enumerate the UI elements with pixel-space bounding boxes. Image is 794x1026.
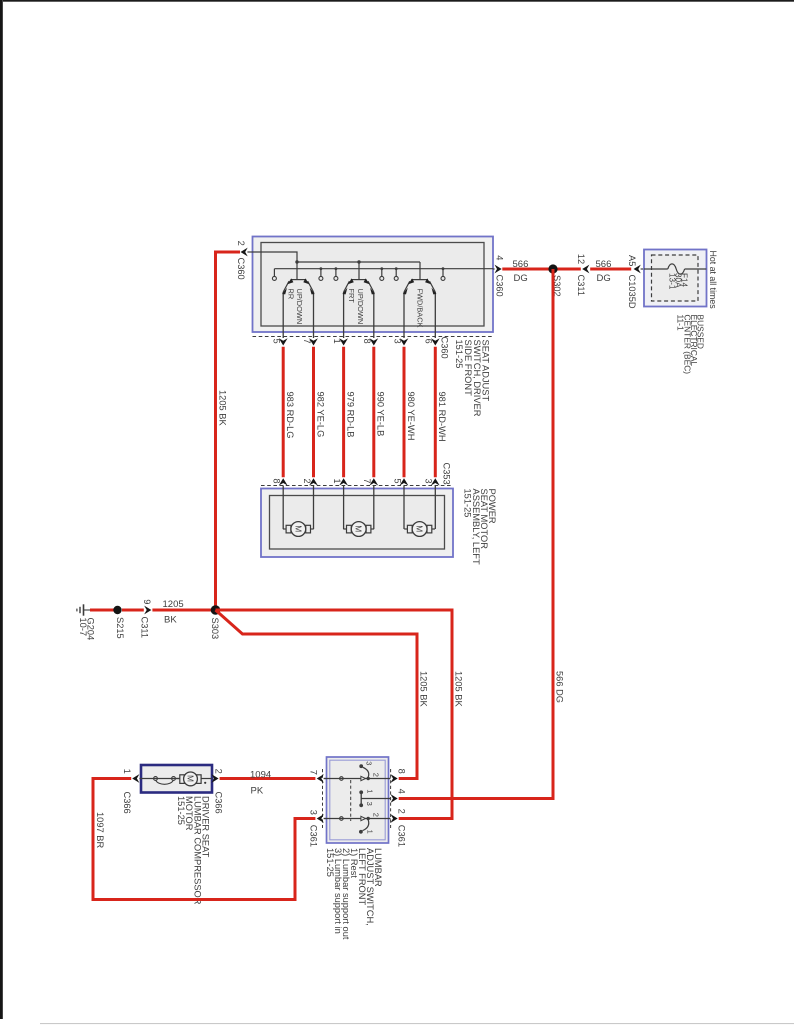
fuse feed line	[644, 268, 668, 270]
connector C353 dashed line	[261, 485, 453, 487]
motor M2 brush left	[347, 525, 352, 533]
pin 2 arrow (C360)	[241, 248, 248, 257]
switch contact line left pin	[282, 292, 284, 338]
svg-text:C353: C353	[442, 463, 452, 485]
switch pin 5 arrow	[279, 338, 288, 345]
svg-text:C1035D: C1035D	[627, 275, 637, 309]
svg-text:C361: C361	[397, 825, 407, 847]
compressor sag wire	[156, 780, 173, 784]
fuse F14 symbol	[668, 264, 685, 274]
motor pin 1 arrow	[339, 478, 348, 485]
svg-text:1: 1	[332, 339, 342, 344]
svg-text:8: 8	[397, 769, 407, 774]
motor M1 brush left	[286, 525, 291, 533]
wire 1094 PK	[220, 777, 316, 780]
switch contact line right pin	[313, 292, 315, 338]
svg-text:S215: S215	[115, 617, 125, 639]
lumbar switch element bottom dot	[367, 817, 370, 820]
motor pin 8 arrow	[279, 478, 288, 485]
lumbar line pin4	[361, 798, 390, 800]
inline connector C311 arrow (pin 12)	[582, 265, 589, 274]
svg-text:Hot at all times: Hot at all times	[708, 251, 718, 310]
svg-text:1205 BK: 1205 BK	[217, 390, 227, 426]
junction dot	[357, 260, 360, 263]
switch diagonal right	[308, 281, 314, 292]
svg-text:1: 1	[365, 789, 374, 793]
connector C361 dashed line (right)	[390, 769, 392, 828]
compressor contact	[172, 777, 176, 781]
pin A5 arrow (C1035D)	[634, 265, 641, 274]
inline connector C311 arrow (pin 9)	[144, 606, 151, 615]
svg-text:2: 2	[372, 813, 381, 817]
svg-text:3: 3	[424, 479, 434, 484]
bus line to pin4	[274, 268, 493, 270]
motor pin 3 arrow	[431, 478, 440, 485]
svg-text:151-25: 151-25	[454, 340, 464, 369]
svg-text:2: 2	[302, 479, 312, 484]
svg-text:C360: C360	[440, 337, 450, 359]
motor M2 brush right	[366, 525, 371, 533]
lumbar switch element top arc	[363, 767, 369, 777]
switch contact line right pin	[373, 292, 375, 338]
open contact drop	[320, 269, 322, 277]
page top border line	[3, 0, 794, 2]
lumbar adjust switch box (inner blue)	[330, 760, 385, 840]
wire pivot drop switch2	[358, 262, 360, 279]
svg-text:C366: C366	[122, 792, 132, 814]
motor pin 5 arrow	[400, 478, 409, 485]
svg-text:566 DG: 566 DG	[555, 671, 565, 703]
splice S215	[113, 606, 121, 614]
svg-text:151-25: 151-25	[463, 489, 473, 518]
motor M1 brush right	[306, 525, 311, 533]
open contact	[272, 276, 276, 280]
motor pin 1 line	[343, 486, 345, 530]
junction dot	[335, 267, 338, 270]
svg-text:S303: S303	[210, 618, 220, 640]
svg-text:2: 2	[213, 769, 223, 774]
switch contact line left pin	[343, 292, 345, 338]
motor M2 stub left	[343, 528, 346, 530]
svg-text:1: 1	[332, 479, 342, 484]
svg-text:10-7: 10-7	[78, 618, 88, 637]
lumbar switch element bottom arc	[363, 820, 369, 831]
svg-text:UP/DOWN: UP/DOWN	[295, 289, 304, 325]
open contact drop	[273, 269, 275, 277]
svg-text:990 YE-LB: 990 YE-LB	[376, 392, 386, 437]
svg-text:BK: BK	[164, 615, 177, 626]
svg-text:12: 12	[576, 254, 586, 264]
switch rocker bar	[411, 279, 428, 281]
lumbar switch element top triangle	[361, 776, 366, 780]
svg-text:979 RD-LB: 979 RD-LB	[345, 392, 355, 438]
compressor internal line	[141, 778, 180, 780]
motor pin 2 arrow	[309, 478, 318, 485]
seat adjust switch box (inner)	[261, 243, 484, 327]
svg-text:6: 6	[424, 339, 434, 344]
motor M3 brush right	[427, 525, 432, 533]
lumbar switch element mid bar	[360, 792, 362, 805]
svg-text:1: 1	[122, 769, 132, 774]
switch wedge left base	[403, 288, 408, 295]
svg-text:1097 BR: 1097 BR	[95, 812, 105, 848]
switch rocker wedge left	[348, 278, 354, 284]
svg-text:982 YE-LG: 982 YE-LG	[315, 392, 325, 438]
lumbar line pin3	[324, 818, 391, 820]
compressor asterisk dot	[204, 782, 206, 784]
svg-text:8: 8	[272, 479, 282, 484]
compressor motor plate left	[180, 775, 185, 784]
motor M2 stub right	[371, 528, 374, 530]
motor pin 2 line	[313, 486, 315, 530]
svg-text:566: 566	[513, 259, 529, 270]
open contact	[441, 276, 445, 280]
svg-text:980 YE-WH: 980 YE-WH	[406, 392, 416, 441]
motor M3 stub right	[432, 528, 435, 530]
svg-text:2: 2	[236, 241, 246, 246]
open contact drop	[395, 269, 397, 277]
lumbar switch element top contact 3	[359, 764, 363, 768]
svg-text:11-1: 11-1	[676, 315, 686, 331]
svg-text:M: M	[354, 525, 364, 532]
switch wedge right base	[310, 288, 315, 295]
svg-text:3: 3	[392, 339, 402, 344]
switch pin 6 arrow	[431, 338, 440, 345]
switch wedge right base	[432, 288, 437, 295]
svg-text:M: M	[186, 775, 196, 782]
svg-text:M: M	[293, 525, 303, 532]
page left border bar	[0, 0, 3, 1019]
lumbar contact	[340, 817, 344, 821]
motor M1 stub left	[283, 528, 286, 530]
svg-text:DG: DG	[597, 273, 611, 284]
junction dot	[320, 267, 323, 270]
splice S303	[211, 605, 221, 615]
motor M1 stub right	[310, 528, 313, 530]
junction dot	[442, 267, 445, 270]
svg-text:2: 2	[397, 809, 407, 814]
wire 566 DG (C311 to BEC)	[590, 268, 631, 271]
svg-text:RR: RR	[287, 289, 296, 300]
wire pivot drop switch3	[419, 262, 421, 279]
compressor pin 2 arrow (C366)	[211, 774, 218, 783]
wire 982 YE-LG	[312, 347, 315, 478]
bus line from pin2 to switch pivots	[297, 261, 420, 263]
motor M3 circle	[412, 522, 427, 537]
svg-text:7: 7	[308, 770, 318, 775]
pin 4 arrow (C360)	[495, 265, 502, 274]
switch contact line right pin	[434, 292, 436, 338]
motor pin 3 line	[434, 486, 436, 530]
fuse output line	[685, 268, 707, 270]
switch contact line left pin	[403, 292, 405, 338]
svg-text:FRT: FRT	[347, 289, 356, 304]
wire pin2 feed into switch	[253, 252, 298, 262]
wire 983 RD-LG	[282, 347, 285, 478]
svg-text:C366: C366	[213, 792, 223, 814]
lumbar switch element bottom contact 1	[359, 830, 363, 834]
svg-text:4: 4	[397, 789, 407, 794]
wire 980 YE-WH	[403, 347, 406, 478]
lumbar switch element top dot	[367, 777, 370, 780]
open contact drop	[442, 269, 444, 277]
switch rocker bar	[351, 279, 367, 281]
switch rocker wedge left	[287, 278, 293, 284]
motor pin 5 line	[403, 486, 405, 530]
page bottom faint line	[40, 1023, 794, 1024]
svg-text:566: 566	[596, 259, 612, 270]
svg-text:M: M	[415, 525, 425, 532]
lumbar pin 4 arrow	[391, 794, 398, 803]
svg-text:1205 BK: 1205 BK	[418, 671, 428, 707]
compressor contact	[154, 777, 158, 781]
svg-text:C361: C361	[308, 825, 318, 847]
svg-text:3: 3	[364, 761, 373, 765]
lumbar switch center dashed line	[350, 780, 352, 821]
svg-text:9: 9	[142, 599, 152, 604]
wire 1205 BK (pin2 to S303)	[216, 252, 241, 610]
svg-text:1: 1	[365, 830, 374, 834]
wire 1097 BR	[93, 779, 315, 900]
splice S302	[548, 264, 557, 273]
wire 981 RD-WH	[434, 347, 437, 478]
lumbar switch element mid contact 1	[359, 790, 363, 794]
open contact	[380, 276, 384, 280]
svg-text:C360: C360	[236, 258, 246, 280]
switch rocker wedge left	[408, 278, 414, 284]
motor M3 brush left	[407, 525, 412, 533]
compressor pin 1 arrow (C366)	[132, 774, 139, 783]
wire 1205 BK (S303 to lumbar pin2)	[216, 610, 453, 819]
svg-text:151-25: 151-25	[176, 796, 186, 825]
switch wedge right base	[370, 288, 375, 295]
switch wedge left base	[282, 288, 287, 295]
wire pivot drop switch1	[296, 262, 298, 279]
BEC dashed inner box	[652, 255, 699, 301]
switch pin 8 arrow	[369, 338, 378, 345]
wire (S215 to C311)	[122, 609, 144, 612]
svg-text:5: 5	[272, 339, 282, 344]
svg-text:C360: C360	[495, 275, 505, 297]
junction dot	[380, 267, 383, 270]
wire (G204 to S215)	[90, 609, 117, 612]
wire 979 RD-LB	[342, 347, 345, 478]
switch pin 3 arrow	[400, 338, 409, 345]
svg-text:2: 2	[372, 773, 381, 777]
svg-text:13-1: 13-1	[668, 273, 677, 290]
lumbar switch element mid contact 3	[359, 803, 363, 807]
motor M2 circle	[351, 522, 366, 537]
open contact	[334, 276, 338, 280]
lumbar pin 3 arrow	[317, 814, 324, 823]
switch diagonal left	[344, 281, 350, 292]
connector C360 dashed line	[253, 336, 494, 338]
svg-text:981 RD-WH: 981 RD-WH	[437, 392, 447, 442]
junction dot	[295, 260, 298, 263]
motor M1 circle	[291, 522, 306, 537]
switch pin 7 arrow	[309, 338, 318, 345]
svg-text:5: 5	[392, 479, 402, 484]
junction dot	[395, 267, 398, 270]
switch pin 1 arrow	[339, 338, 348, 345]
lumbar line pin7	[324, 778, 391, 780]
switch rocker bar	[291, 279, 307, 281]
svg-text:PK: PK	[251, 786, 264, 797]
switch diagonal left	[404, 281, 410, 292]
wire 566 DG (pin4 to S302)	[502, 268, 581, 271]
svg-text:1094: 1094	[250, 769, 271, 780]
svg-text:983 RD-LG: 983 RD-LG	[285, 392, 295, 439]
motor pin 7 line	[373, 486, 375, 530]
switch diagonal right	[368, 281, 374, 292]
ground G204 symbol	[84, 609, 91, 611]
switch rocker wedge right	[303, 278, 309, 284]
svg-text:FWD/BACK: FWD/BACK	[416, 289, 425, 328]
svg-text:151-25: 151-25	[325, 848, 335, 877]
compressor motor line to pin2	[201, 778, 212, 780]
open contact drop	[335, 269, 337, 277]
switch diagonal right	[430, 281, 436, 292]
svg-text:C311: C311	[140, 617, 150, 639]
power seat motor assembly box (outer blue)	[261, 489, 453, 558]
svg-text:UP/DOWN: UP/DOWN	[356, 289, 365, 325]
compressor motor circle	[184, 772, 198, 786]
power seat motor assembly box (inner)	[270, 496, 445, 550]
motor pin 7 arrow	[369, 478, 378, 485]
switch diagonal left	[283, 281, 289, 292]
lumbar pin 7 arrow	[317, 774, 324, 783]
open contact	[319, 276, 323, 280]
svg-text:7: 7	[362, 479, 372, 484]
svg-text:3: 3	[308, 810, 318, 815]
lumbar pin 2 arrow	[391, 814, 398, 823]
compressor motor line to plate	[175, 778, 180, 780]
lumbar contact	[340, 777, 344, 781]
svg-text:A5: A5	[627, 255, 637, 266]
BEC box (outer blue)	[644, 250, 707, 307]
lumbar switch element bottom triangle	[361, 816, 366, 820]
wire 990 YE-LB	[372, 347, 375, 478]
wire 1205 BK (S303 to lumbar pin8)	[216, 610, 418, 779]
lumbar adjust switch box (outer blue)	[327, 757, 389, 843]
switch rocker wedge right	[425, 278, 431, 284]
svg-text:1205: 1205	[163, 599, 184, 610]
lumbar pin 8 arrow	[391, 774, 398, 783]
open contact	[394, 276, 398, 280]
svg-text:7: 7	[302, 339, 312, 344]
svg-text:8: 8	[362, 339, 372, 344]
compressor motor plate right	[197, 775, 202, 784]
switch wedge left base	[342, 288, 347, 295]
seat adjust switch box (outer blue)	[253, 237, 494, 333]
wire 566 DG (S302 to lumbar pin4)	[399, 269, 553, 799]
svg-text:DG: DG	[514, 273, 528, 284]
connector C361 dashed line (left)	[322, 769, 324, 828]
motor pin 8 line	[282, 486, 284, 530]
open contact drop	[381, 269, 383, 277]
svg-text:C311: C311	[576, 275, 586, 297]
driver seat lumbar compressor motor box	[141, 765, 212, 793]
wire 1205 BK (C311 to S303)	[152, 609, 215, 612]
svg-text:1205 BK: 1205 BK	[453, 671, 463, 707]
svg-text:4: 4	[495, 255, 505, 260]
motor M3 stub left	[404, 528, 407, 530]
switch rocker wedge right	[364, 278, 370, 284]
svg-text:3: 3	[365, 802, 374, 806]
